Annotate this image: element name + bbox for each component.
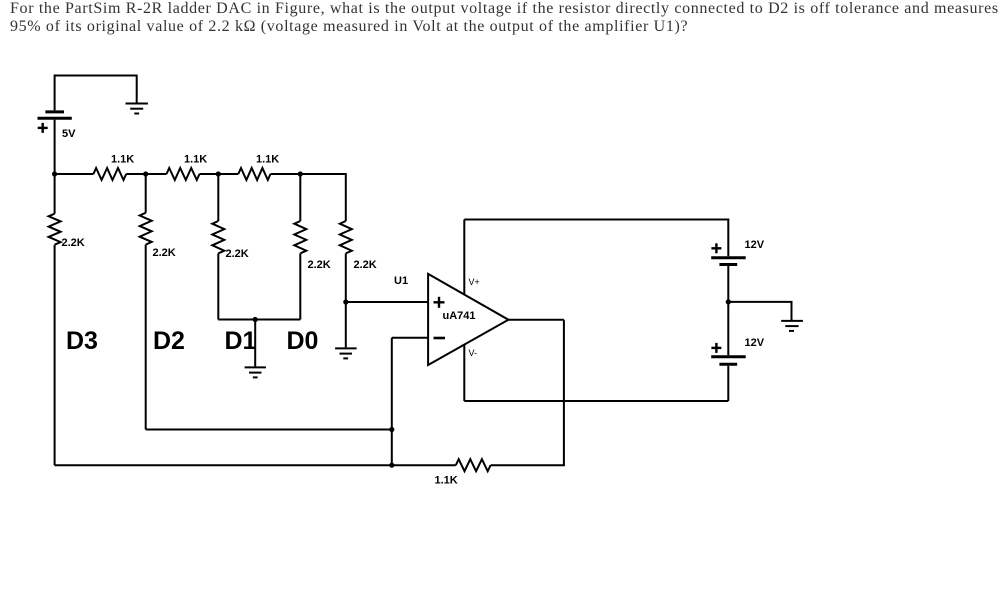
resistor R2 1.1K [167, 168, 200, 180]
battery V3 12V bottom [711, 357, 746, 401]
wire D3 column bottom [54, 245, 56, 466]
minus sign of op-amp input [434, 337, 446, 340]
node N8 junction dot [389, 463, 394, 468]
wire D2 column top [145, 174, 147, 213]
wire N9 to ground [728, 302, 791, 320]
wire op-amp output [508, 319, 564, 321]
svg-text:2.2K: 2.2K [226, 248, 249, 260]
resistor R1 1.1K [93, 168, 126, 180]
plus sign of V1 [38, 123, 48, 133]
svg-text:V-: V- [469, 348, 478, 358]
ground GND2 [245, 367, 266, 377]
wire D2 to node N7 [146, 429, 392, 431]
svg-text:U1: U1 [394, 275, 408, 287]
wire V+ rail [464, 220, 728, 257]
resistor R6 2.2K (D2 leg) [140, 213, 152, 245]
resistor R3 1.1K [238, 168, 270, 180]
svg-text:2.2K: 2.2K [308, 259, 331, 271]
svg-text:1.1K: 1.1K [256, 154, 279, 166]
wire R2 to node N3 [200, 173, 239, 175]
svg-text:5V: 5V [62, 128, 76, 140]
wire D1-D0 bottom connector [218, 319, 300, 321]
pin V- wire [463, 345, 465, 401]
battery V2 12V top [711, 258, 746, 302]
node N5 junction dot [253, 317, 258, 322]
ground GND4 [781, 321, 803, 331]
svg-text:D3: D3 [66, 327, 98, 355]
resistor R10 1.1K feedback [456, 459, 491, 471]
node N1 junction dot [52, 171, 57, 176]
plus sign of op-amp input [434, 297, 445, 308]
pin V+ wire [463, 220, 465, 295]
svg-text:D0: D0 [287, 327, 319, 355]
wire bottom rail D3 to N8 [55, 464, 392, 466]
resistor R8 2.2K (D0 leg) [294, 221, 306, 253]
resistor R9 2.2K (terminating leg) [340, 221, 352, 253]
wire N8 to feedback resistor [392, 464, 456, 466]
wire V- rail [464, 400, 728, 402]
wire R9 bottom to node N6 [345, 253, 347, 302]
node N7 junction dot [389, 427, 394, 432]
wire D2 column bottom [145, 245, 147, 430]
svg-text:1.1K: 1.1K [435, 475, 458, 487]
wire N5 to ground [254, 320, 256, 367]
node N2 junction dot [143, 171, 148, 176]
node N9 junction dot [726, 299, 731, 304]
node N4 junction dot [298, 171, 303, 176]
svg-text:2.2K: 2.2K [62, 237, 85, 249]
svg-text:1.1K: 1.1K [111, 154, 134, 166]
wire from V1 top to ground [55, 76, 137, 103]
svg-text:D2: D2 [153, 327, 185, 355]
wire feedback resistor to output corner [491, 320, 564, 466]
wire inverting input [392, 337, 428, 339]
plus sign of V3 [711, 343, 721, 353]
wire D0 column top [299, 174, 301, 221]
svg-text:D1: D1 [225, 327, 257, 355]
op-amp U1 triangle [428, 274, 508, 365]
wire D0 column bottom [299, 253, 301, 319]
wire D1 column top [217, 174, 219, 221]
wire R3 to corner [271, 174, 346, 221]
resistor R7 2.2K (D1 leg) [212, 221, 224, 253]
question text [10, 0, 1007, 36]
resistor R4 2.2K (D3 leg) [49, 214, 61, 245]
svg-text:2.2K: 2.2K [354, 259, 377, 271]
node N6 junction dot [343, 299, 348, 304]
wire R1 to node N2 [126, 173, 166, 175]
svg-text:uA741: uA741 [443, 310, 476, 322]
svg-text:1.1K: 1.1K [184, 154, 207, 166]
wire feedback vertical [391, 338, 393, 465]
wire N6 to op-amp noninverting input [346, 301, 428, 303]
wire D3 column top [54, 174, 56, 214]
svg-text:2.2K: 2.2K [153, 247, 176, 259]
ground GND3 [335, 348, 357, 358]
wire rail segment N1 to R1 [55, 173, 94, 175]
wire N6 to ground [345, 302, 347, 347]
wire D1 column bottom [217, 253, 219, 319]
svg-text:12V: 12V [745, 239, 765, 251]
battery V1 5V [38, 75, 72, 175]
wire N9 to battery V3 [727, 302, 729, 355]
svg-text:V+: V+ [469, 277, 480, 287]
node N3 junction dot [216, 171, 221, 176]
plus sign of V2 [711, 243, 721, 253]
ground GND1 [126, 104, 148, 114]
svg-text:12V: 12V [745, 337, 765, 349]
